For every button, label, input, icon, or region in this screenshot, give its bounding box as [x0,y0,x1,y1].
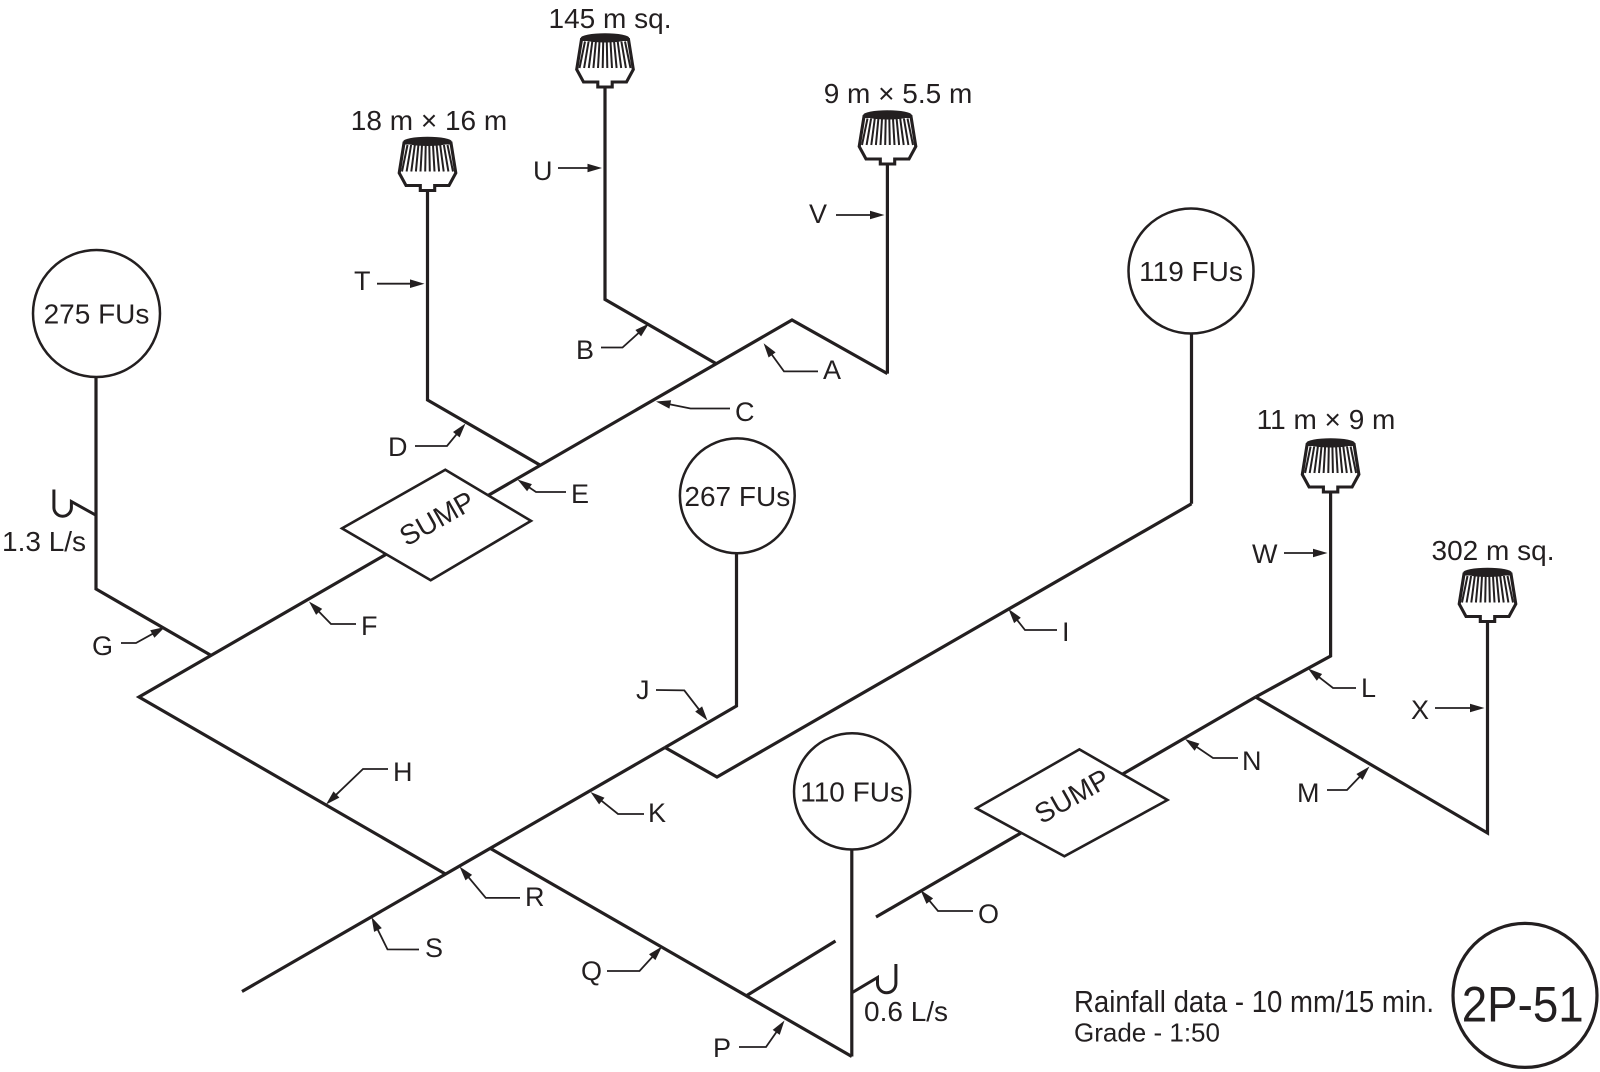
svg-text:B: B [576,335,594,365]
svg-text:D: D [388,432,408,462]
svg-text:S: S [425,933,443,963]
svg-text:Rainfall data - 10 mm/15 min.: Rainfall data - 10 mm/15 min. [1074,984,1434,1019]
svg-text:X: X [1411,695,1429,725]
svg-text:0.6 L/s: 0.6 L/s [864,996,948,1027]
svg-text:G: G [92,631,113,661]
svg-text:1.3 L/s: 1.3 L/s [2,526,86,557]
svg-text:Grade - 1:50: Grade - 1:50 [1074,1018,1220,1048]
svg-text:I: I [1062,617,1070,647]
svg-text:T: T [354,266,371,296]
svg-text:J: J [636,675,650,705]
svg-text:R: R [525,882,545,912]
svg-text:W: W [1252,539,1278,569]
svg-text:M: M [1297,778,1320,808]
svg-text:H: H [393,757,413,787]
svg-text:P: P [713,1033,731,1063]
svg-text:267 FUs: 267 FUs [684,481,790,512]
svg-text:O: O [978,899,999,929]
svg-text:V: V [809,199,827,229]
svg-text:11 m × 9 m: 11 m × 9 m [1257,404,1396,435]
svg-text:18 m × 16 m: 18 m × 16 m [351,105,507,136]
svg-text:119 FUs: 119 FUs [1139,256,1243,287]
svg-text:U: U [533,156,553,186]
svg-text:K: K [648,798,666,828]
svg-text:Q: Q [581,956,602,986]
svg-text:2P-51: 2P-51 [1462,976,1584,1032]
svg-text:A: A [823,355,841,385]
svg-text:L: L [1361,673,1376,703]
svg-text:9 m × 5.5 m: 9 m × 5.5 m [824,78,973,109]
svg-text:110 FUs: 110 FUs [800,776,904,807]
svg-text:F: F [361,611,378,641]
svg-text:E: E [571,479,589,509]
svg-text:145 m sq.: 145 m sq. [549,3,672,34]
svg-text:C: C [735,397,755,427]
svg-text:302 m sq.: 302 m sq. [1432,535,1555,566]
svg-text:N: N [1242,746,1262,776]
svg-text:275 FUs: 275 FUs [44,299,150,330]
